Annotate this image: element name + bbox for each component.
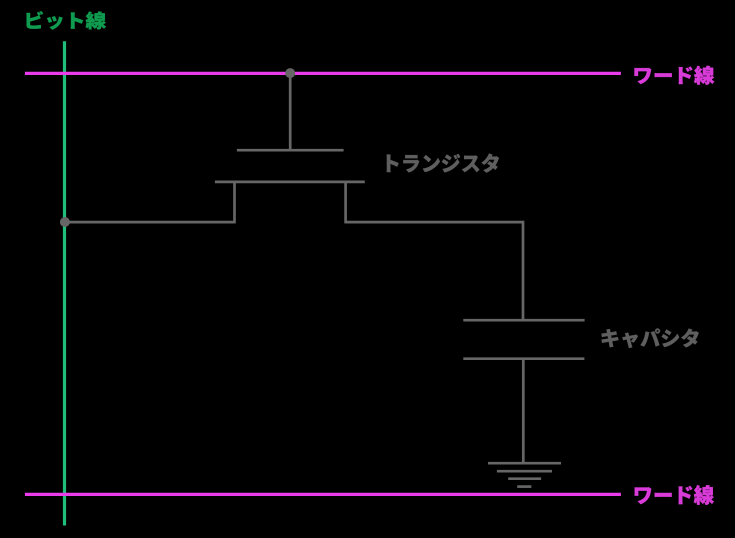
capacitor bottom plate: [463, 357, 584, 360]
label transistor "トランジスタ": [387, 154, 499, 173]
word line (bottom): [25, 493, 621, 496]
junction dot on word line: [285, 68, 295, 78]
word line (top): [25, 72, 621, 75]
junction dot on bit line: [60, 217, 70, 227]
ground bar 3: [508, 477, 541, 480]
wire capacitor to ground: [522, 359, 525, 464]
capacitor top plate: [463, 319, 584, 322]
transistor gate bar: [237, 149, 344, 152]
transistor drain leg: [344, 182, 347, 224]
bit line: [63, 41, 66, 525]
ground bar 1: [488, 462, 561, 465]
label word line bottom "ワード線": [635, 485, 714, 505]
wire drain to capacitor (horizontal): [346, 221, 523, 224]
wire source to bit line: [65, 221, 235, 224]
label bit line "ビット線": [26, 11, 105, 29]
wire drain to capacitor (vertical): [522, 221, 525, 320]
ground bar 2: [497, 470, 552, 473]
label capacitor "キャパシタ": [602, 328, 699, 347]
transistor gate wire: [289, 73, 292, 150]
label word line top "ワード線": [634, 66, 714, 85]
transistor channel bar: [215, 181, 365, 184]
ground bar 4: [517, 485, 531, 488]
transistor source leg: [233, 182, 236, 224]
